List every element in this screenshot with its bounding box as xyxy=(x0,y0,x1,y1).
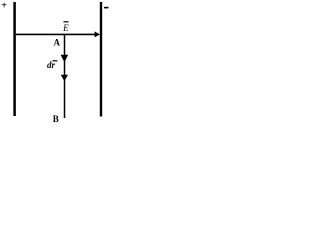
svg-text:B: B xyxy=(53,114,59,124)
E field arrowhead xyxy=(95,31,100,37)
E field arrow line xyxy=(16,33,96,35)
svg-text:E: E xyxy=(62,23,69,33)
arrowhead 1 on dr path xyxy=(61,55,69,63)
dr path line from A to B xyxy=(64,35,66,118)
svg-text:A: A xyxy=(54,37,61,47)
macron over r xyxy=(53,60,58,62)
arrowhead 2 on dr path xyxy=(61,75,68,82)
left plate xyxy=(13,2,16,116)
svg-text:+: + xyxy=(1,1,7,12)
minus sign (right plate polarity) xyxy=(104,7,109,9)
right plate xyxy=(100,2,102,117)
macron over E xyxy=(64,21,69,23)
